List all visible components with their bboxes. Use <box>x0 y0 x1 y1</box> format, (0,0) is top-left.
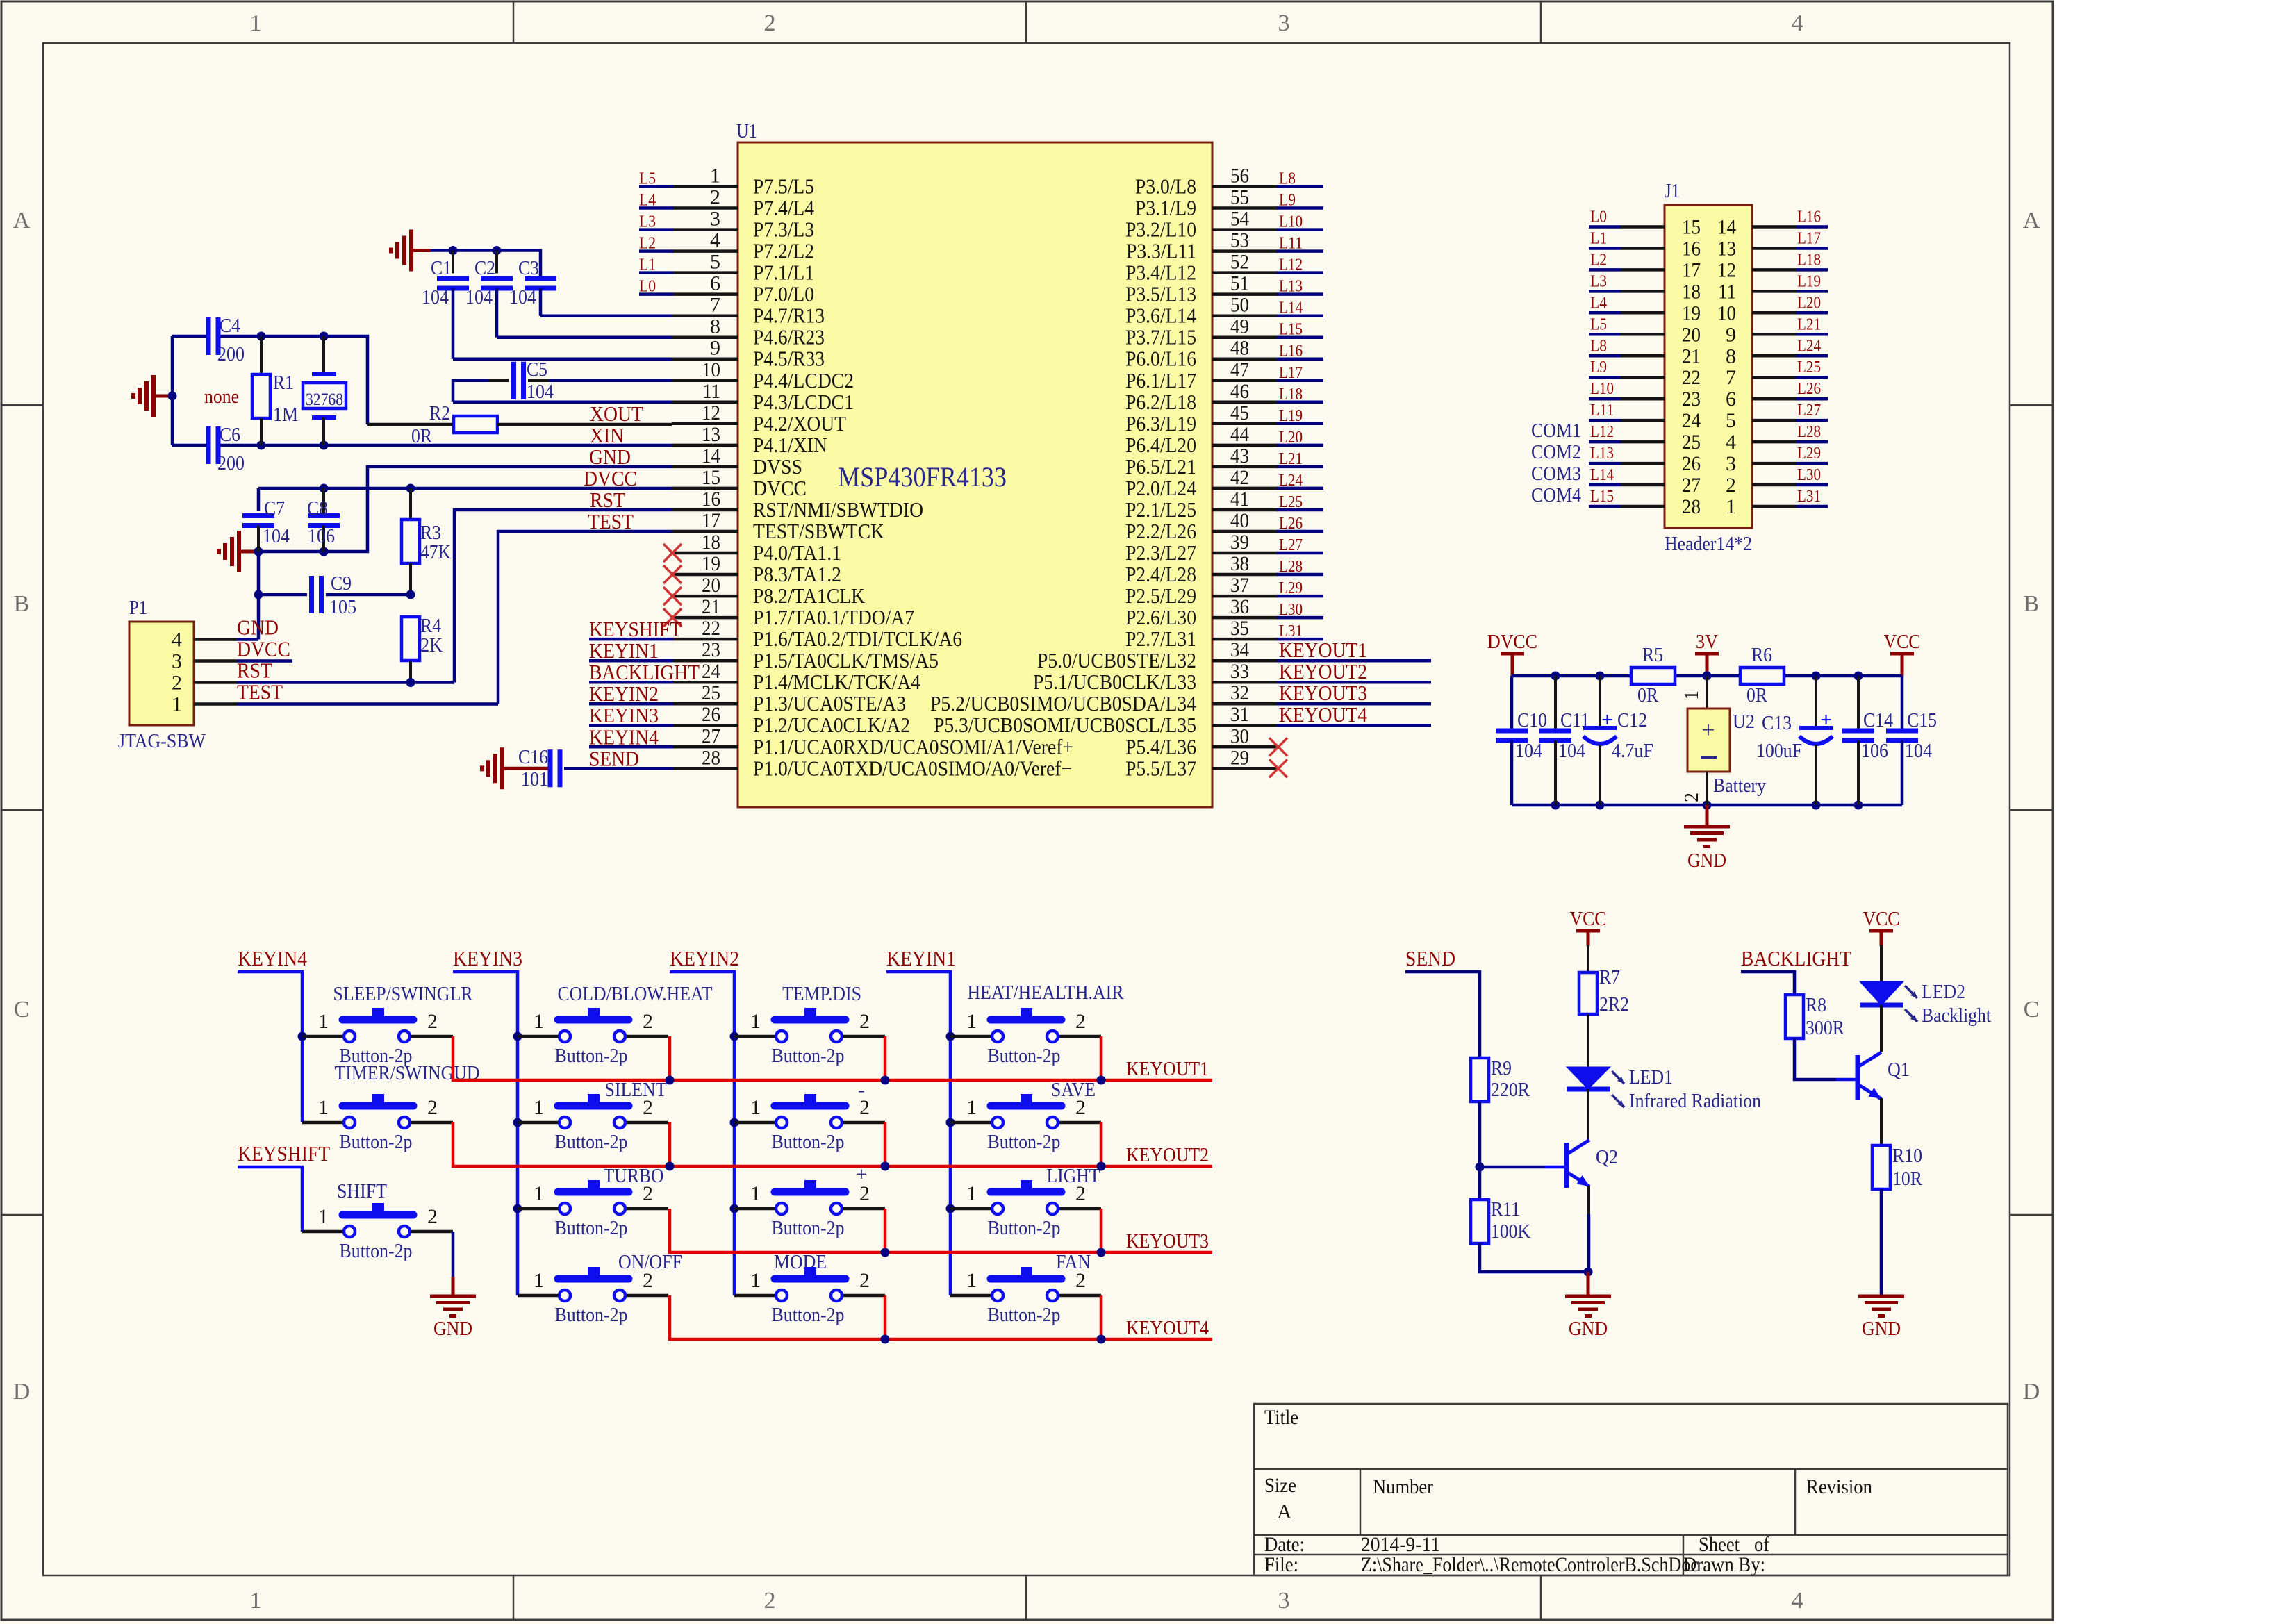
U1 pin 5 P7.1/L1 <box>672 251 814 285</box>
svg-text:C1: C1 <box>431 257 452 279</box>
wire net L12 from U1 pin 52 <box>1277 271 1323 274</box>
value none <box>204 386 239 408</box>
svg-text:L31: L31 <box>1797 488 1821 506</box>
capacitor C9 <box>258 572 411 618</box>
net label L28 <box>1279 558 1303 576</box>
svg-text:104: 104 <box>263 525 290 547</box>
junction KEYOUT3 col4 <box>1097 1209 1106 1257</box>
svg-text:300R: 300R <box>1806 1017 1845 1039</box>
svg-text:L29: L29 <box>1797 445 1821 463</box>
wire net L19 from U1 pin 45 <box>1277 422 1323 426</box>
svg-text:+: + <box>1601 709 1613 731</box>
svg-text:C8: C8 <box>307 497 328 520</box>
no-connect X on U1 pin 30 <box>1269 738 1287 756</box>
svg-text:COM2: COM2 <box>1531 441 1581 463</box>
svg-text:1: 1 <box>1681 690 1703 700</box>
U1 pin 18 P4.0/TA1.1 <box>672 531 841 565</box>
wire net L14 from U1 pin 50 <box>1277 314 1323 317</box>
wire DVCC rail <box>258 488 672 511</box>
svg-text:2: 2 <box>859 1269 870 1292</box>
ground symbol battery <box>1684 805 1730 872</box>
svg-text:14: 14 <box>1717 216 1736 239</box>
U1 pin 30 P5.4/L36 <box>1125 724 1278 759</box>
svg-text:L10: L10 <box>1279 213 1303 231</box>
U1 pin 37 P2.5/L29 <box>1125 574 1278 608</box>
svg-text:Title: Title <box>1264 1406 1298 1429</box>
svg-text:P3.2/L10: P3.2/L10 <box>1125 217 1196 242</box>
wire net L20 from U1 pin 44 <box>1277 444 1323 447</box>
capacitor C2 <box>465 251 672 338</box>
svg-text:L13: L13 <box>1279 278 1303 296</box>
junction C1 top <box>449 246 458 255</box>
wire KEYIN4 column <box>238 972 307 1122</box>
transistor Q2 <box>1567 1140 1618 1188</box>
svg-text:R9: R9 <box>1491 1057 1512 1079</box>
svg-text:Number: Number <box>1373 1475 1433 1498</box>
svg-text:Backlight: Backlight <box>1922 1004 1991 1027</box>
U1 pin 27 P1.1/UCA0RXD/UCA0SOMI/A1/Veref+ <box>672 724 1073 759</box>
svg-text:25: 25 <box>1682 431 1701 454</box>
svg-text:7: 7 <box>710 294 720 317</box>
net label RST pin16 <box>590 488 625 512</box>
svg-text:KEYIN1: KEYIN1 <box>886 946 956 970</box>
U1 pin 6 P7.0/L0 <box>672 272 814 306</box>
junction KEYOUT4 col3 <box>881 1295 890 1344</box>
svg-text:44: 44 <box>1230 423 1249 446</box>
net label SEND <box>1405 946 1455 970</box>
svg-text:L11: L11 <box>1279 235 1303 253</box>
ic U1 MSP430FR4133 body <box>738 142 1212 807</box>
svg-text:A: A <box>1277 1500 1292 1523</box>
J1 pin 28 net L15 <box>1589 488 1701 518</box>
svg-text:R6: R6 <box>1751 644 1772 666</box>
svg-text:A: A <box>2023 208 2040 233</box>
button S15 FAN <box>950 1251 1101 1326</box>
svg-text:L3: L3 <box>639 213 656 231</box>
U1 pin 43 P6.5/L21 <box>1125 445 1278 479</box>
svg-text:1: 1 <box>534 1269 544 1292</box>
wire KEYOUT4 <box>670 1295 1212 1339</box>
svg-text:49: 49 <box>1230 315 1249 338</box>
svg-text:31: 31 <box>1230 703 1249 726</box>
svg-text:KEYOUT1: KEYOUT1 <box>1279 638 1367 662</box>
svg-text:47: 47 <box>1230 358 1249 381</box>
net label L5 <box>639 170 656 188</box>
svg-text:GND: GND <box>433 1318 472 1340</box>
button S6 SILENT <box>518 1079 668 1153</box>
svg-text:Button-2p: Button-2p <box>772 1131 845 1153</box>
U1 pin 48 P6.0/L16 <box>1125 337 1278 371</box>
svg-text:1: 1 <box>750 1269 761 1292</box>
svg-text:0R: 0R <box>411 425 433 447</box>
wire net KEYIN1 to U1 pin 23 <box>589 659 673 663</box>
svg-text:P1.1/UCA0RXD/UCA0SOMI/A1/Veref: P1.1/UCA0RXD/UCA0SOMI/A1/Veref+ <box>753 734 1073 759</box>
svg-text:C3: C3 <box>518 257 539 279</box>
svg-text:17: 17 <box>1682 258 1701 281</box>
net label L9 <box>1279 192 1296 210</box>
wire net L10 from U1 pin 54 <box>1277 228 1323 231</box>
junction bottom rail <box>1596 801 1605 810</box>
svg-text:2: 2 <box>1681 793 1703 802</box>
svg-text:L21: L21 <box>1279 450 1303 468</box>
svg-text:R2: R2 <box>429 402 450 424</box>
svg-text:L12: L12 <box>1279 256 1303 274</box>
button S11 plus <box>734 1163 885 1239</box>
svg-text:P1.7/TA0.1/TDO/A7: P1.7/TA0.1/TDO/A7 <box>753 605 914 629</box>
net label KEYIN1 <box>886 946 956 970</box>
svg-text:4: 4 <box>710 229 720 252</box>
U1 pin 56 P3.0/L8 <box>1135 165 1278 199</box>
svg-text:P6.2/L18: P6.2/L18 <box>1125 390 1196 414</box>
capacitor C15 <box>1886 676 1937 805</box>
svg-text:2: 2 <box>1075 1269 1086 1292</box>
J1 pin 24 net L11 <box>1589 401 1701 432</box>
svg-text:L1: L1 <box>1590 230 1607 248</box>
svg-text:1: 1 <box>318 1096 329 1119</box>
svg-text:P4.0/TA1.1: P4.0/TA1.1 <box>753 540 841 565</box>
J1 pin 22 net L9 <box>1589 358 1701 389</box>
capacitor C4 <box>208 315 245 365</box>
net label XIN <box>590 423 624 447</box>
svg-text:TEMP.DIS: TEMP.DIS <box>782 983 861 1005</box>
svg-text:P2.7/L31: P2.7/L31 <box>1125 627 1196 651</box>
svg-text:L20: L20 <box>1279 429 1303 447</box>
svg-text:P2.3/L27: P2.3/L27 <box>1125 540 1196 565</box>
svg-text:Button-2p: Button-2p <box>340 1240 413 1262</box>
J1 pin 8 net L24 <box>1726 337 1828 367</box>
svg-text:DVCC: DVCC <box>584 466 637 490</box>
svg-text:Button-2p: Button-2p <box>988 1131 1061 1153</box>
wire LED2 to Q1 collector <box>1880 1005 1883 1052</box>
svg-text:P6.1/L17: P6.1/L17 <box>1125 368 1196 392</box>
svg-text:P4.3/LCDC1: P4.3/LCDC1 <box>753 390 854 414</box>
svg-text:P5.2/UCB0SIMO/UCB0SDA/L34: P5.2/UCB0SIMO/UCB0SDA/L34 <box>930 691 1196 715</box>
label COM2 <box>1531 441 1581 463</box>
svg-text:4.7uF: 4.7uF <box>1612 740 1653 762</box>
connector P1 designator <box>129 597 147 619</box>
svg-text:KEYIN4: KEYIN4 <box>589 724 659 749</box>
U1 pin 16 RST/NMI/SBWTDIO <box>672 488 923 522</box>
wire net L26 from U1 pin 40 <box>1277 530 1323 533</box>
svg-text:L0: L0 <box>639 278 656 296</box>
svg-text:13: 13 <box>702 423 720 446</box>
net label L3 <box>639 213 656 231</box>
capacitor C10 <box>1496 676 1547 805</box>
svg-text:28: 28 <box>1682 495 1701 518</box>
U1 pin 8 P4.6/R23 <box>672 315 825 349</box>
svg-text:3V: 3V <box>1696 631 1718 653</box>
svg-text:P3.5/L13: P3.5/L13 <box>1125 282 1196 306</box>
svg-text:40: 40 <box>1230 509 1249 532</box>
svg-text:P3.1/L9: P3.1/L9 <box>1135 196 1196 220</box>
svg-text:2K: 2K <box>420 634 443 656</box>
svg-text:16: 16 <box>702 488 720 511</box>
title block labels <box>1264 1406 1872 1576</box>
wire R9 to R11 <box>1478 1102 1482 1200</box>
wire net L5 to U1 pin 1 <box>639 185 673 188</box>
svg-text:L0: L0 <box>1590 208 1607 226</box>
svg-text:25: 25 <box>702 681 720 704</box>
junction top rail <box>1854 672 1863 681</box>
svg-text:L19: L19 <box>1279 407 1303 425</box>
U1 pin 34 P5.0/UCB0STE/L32 <box>1037 638 1278 672</box>
junction C4-R1 <box>257 332 266 341</box>
resistor R5 <box>1631 644 1675 706</box>
svg-text:L4: L4 <box>639 192 656 210</box>
no-connect X on U1 pin 29 <box>1269 759 1287 777</box>
svg-text:R11: R11 <box>1491 1198 1520 1220</box>
U1 pin 39 P2.3/L27 <box>1125 531 1278 565</box>
svg-text:22: 22 <box>702 617 720 640</box>
J1 pin 7 net L25 <box>1726 358 1828 389</box>
resistor R7 <box>1579 966 1629 1016</box>
net label L15 <box>1279 321 1303 339</box>
wire net L3 to U1 pin 3 <box>639 228 673 231</box>
svg-text:L3: L3 <box>1590 272 1607 290</box>
led LED2 <box>1860 981 1991 1027</box>
net label L1 <box>639 256 656 274</box>
net label KEYIN1 <box>589 638 659 663</box>
junction gnd vert <box>254 547 263 556</box>
wire KEYIN3 column <box>453 972 522 1295</box>
U1 pin 1 P7.5/L5 <box>672 165 814 199</box>
net label L27 <box>1279 536 1303 554</box>
svg-text:C6: C6 <box>220 424 240 446</box>
U1 pin 15 DVCC <box>672 466 807 500</box>
junction Q2 emitter gnd <box>1584 1268 1593 1277</box>
button S12 LIGHT <box>950 1165 1101 1239</box>
svg-text:B: B <box>2024 591 2040 617</box>
J1 pin 4 net L28 <box>1726 423 1828 454</box>
svg-text:Button-2p: Button-2p <box>555 1045 628 1067</box>
svg-text:2: 2 <box>764 1588 776 1614</box>
svg-text:DVCC: DVCC <box>1487 631 1537 653</box>
svg-text:L25: L25 <box>1797 358 1821 376</box>
net label L24 <box>1279 472 1303 490</box>
resistor R10 <box>1872 1145 1923 1190</box>
wire KEYIN2 column <box>670 972 739 1295</box>
svg-text:GND: GND <box>1687 850 1726 872</box>
junction crystal top <box>320 332 329 341</box>
P1 pin 1 TEST <box>172 680 283 716</box>
svg-text:J1: J1 <box>1665 181 1680 202</box>
svg-text:KEYOUT4: KEYOUT4 <box>1279 702 1367 727</box>
svg-text:TURBO: TURBO <box>604 1165 664 1187</box>
svg-text:P3.4/L12: P3.4/L12 <box>1125 260 1196 285</box>
net label KEYOUT4 <box>1279 702 1367 727</box>
svg-text:26: 26 <box>1682 452 1701 475</box>
U1 pin 19 P8.3/TA1.2 <box>672 552 841 586</box>
svg-text:34: 34 <box>1230 638 1249 661</box>
junction C8 bottom <box>320 547 329 556</box>
J1 pin 14 net L16 <box>1717 208 1828 239</box>
svg-text:11: 11 <box>1718 280 1736 303</box>
svg-text:R7: R7 <box>1599 966 1620 988</box>
svg-text:KEYSHIFT: KEYSHIFT <box>589 617 682 641</box>
svg-text:P7.4/L4: P7.4/L4 <box>753 196 814 220</box>
capacitor C1 <box>422 251 672 359</box>
button S2 COLD/BLOW.HEAT <box>518 983 713 1067</box>
net label L14 <box>1279 299 1303 317</box>
svg-text:1M: 1M <box>273 404 298 426</box>
svg-text:L28: L28 <box>1279 558 1303 576</box>
svg-text:KEYIN4: KEYIN4 <box>238 946 307 970</box>
svg-text:A: A <box>13 208 31 233</box>
wire net L0 to U1 pin 6 <box>639 292 673 296</box>
button S3 TEMP.DIS <box>734 983 885 1067</box>
wire R10 to gnd <box>1880 1189 1883 1296</box>
svg-text:SEND: SEND <box>1405 946 1455 970</box>
junction R3 R4 C9 <box>406 590 415 599</box>
net label KEYOUT2 <box>1279 659 1367 683</box>
wire TEST net <box>237 531 672 704</box>
svg-text:HEAT/HEALTH.AIR: HEAT/HEALTH.AIR <box>968 981 1125 1004</box>
wire P1 gnd <box>237 638 258 641</box>
svg-text:106: 106 <box>1861 740 1888 762</box>
junction C6-R1 <box>257 441 266 450</box>
svg-text:Q1: Q1 <box>1888 1059 1910 1081</box>
wire net L28 from U1 pin 38 <box>1277 573 1323 577</box>
svg-text:104: 104 <box>422 286 449 308</box>
svg-text:L12: L12 <box>1590 423 1614 441</box>
svg-text:P3.3/L11: P3.3/L11 <box>1126 239 1196 263</box>
U1 pin 14 DVSS <box>672 445 802 479</box>
svg-text:11: 11 <box>702 380 720 403</box>
svg-text:2: 2 <box>643 1010 653 1033</box>
wire base Q2 <box>1480 1166 1564 1169</box>
junction top rail <box>1596 672 1605 681</box>
net label KEYOUT2 <box>1126 1144 1209 1166</box>
svg-text:COM1: COM1 <box>1531 420 1581 442</box>
svg-text:L15: L15 <box>1590 488 1614 506</box>
svg-text:1: 1 <box>1726 495 1736 518</box>
net label L13 <box>1279 278 1303 296</box>
junction crystal bottom <box>320 441 329 450</box>
svg-text:52: 52 <box>1230 251 1249 274</box>
svg-text:16: 16 <box>1682 238 1701 260</box>
zone dividers right band <box>2010 405 2053 1215</box>
svg-text:35: 35 <box>1230 617 1249 640</box>
wire XIN bottom rail <box>172 444 672 447</box>
net label L10 <box>1279 213 1303 231</box>
svg-text:L18: L18 <box>1797 251 1821 269</box>
svg-text:U2: U2 <box>1733 711 1755 733</box>
ic U1 part name MSP430FR4133 <box>838 461 1007 492</box>
svg-text:55: 55 <box>1230 186 1249 209</box>
svg-text:L14: L14 <box>1279 299 1303 317</box>
svg-text:KEYIN2: KEYIN2 <box>589 681 659 706</box>
svg-text:3: 3 <box>1726 452 1736 475</box>
svg-text:32: 32 <box>1230 681 1249 704</box>
svg-text:2: 2 <box>172 672 182 695</box>
J1 pin 23 net L10 <box>1589 380 1701 411</box>
svg-text:L17: L17 <box>1797 230 1821 248</box>
net label BACKLIGHT <box>589 660 700 684</box>
transistor Q1 <box>1858 1052 1910 1100</box>
svg-text:KEYSHIFT: KEYSHIFT <box>238 1141 330 1166</box>
U1 pin 9 P4.5/R33 <box>672 337 825 371</box>
U1 pin 41 P2.1/L25 <box>1125 488 1278 522</box>
ground symbol C1-C3 <box>391 230 431 272</box>
wire net L16 from U1 pin 48 <box>1277 357 1323 361</box>
resistor R3 <box>402 488 451 595</box>
svg-text:P5.5/L37: P5.5/L37 <box>1125 756 1196 780</box>
J1 pin 5 net L27 <box>1726 401 1828 432</box>
wire gnd to C9 vertical <box>257 552 261 640</box>
U1 pin 54 P3.2/L10 <box>1125 208 1278 242</box>
svg-text:1: 1 <box>966 1096 977 1119</box>
U1 pin 23 P1.5/TA0CLK/TMS/A5 <box>672 638 939 672</box>
svg-text:P2.2/L26: P2.2/L26 <box>1125 519 1196 543</box>
J1 pin 20 net L5 <box>1589 315 1701 346</box>
J1 pin 18 net L3 <box>1589 272 1701 303</box>
wire net L8 from U1 pin 56 <box>1277 185 1323 188</box>
svg-text:L1: L1 <box>639 256 656 274</box>
junction R3 top <box>406 484 415 493</box>
svg-text:15: 15 <box>702 466 720 489</box>
svg-text:L5: L5 <box>639 170 656 188</box>
U1 pin 2 P7.4/L4 <box>672 186 814 220</box>
svg-text:21: 21 <box>1682 345 1701 367</box>
svg-text:104: 104 <box>1515 740 1542 762</box>
svg-text:14: 14 <box>702 445 720 467</box>
svg-text:2: 2 <box>427 1096 438 1119</box>
net label L19 <box>1279 407 1303 425</box>
junction top rail <box>1812 672 1821 681</box>
wire net BACKLIGHT to U1 pin 24 <box>589 681 673 684</box>
svg-text:12: 12 <box>702 401 720 424</box>
svg-text:P2.0/L24: P2.0/L24 <box>1125 476 1196 500</box>
junction KEYOUT3 col3 <box>881 1209 890 1257</box>
svg-text:27: 27 <box>702 724 720 747</box>
net label DVCC pin15 <box>584 466 637 490</box>
svg-text:1: 1 <box>534 1010 544 1033</box>
ground symbol C7 C8 <box>219 531 258 572</box>
svg-text:Q2: Q2 <box>1596 1146 1618 1168</box>
wire net L30 from U1 pin 36 <box>1277 616 1323 620</box>
net label L16 <box>1279 342 1303 361</box>
svg-text:P8.3/TA1.2: P8.3/TA1.2 <box>753 562 841 586</box>
wire net L2 to U1 pin 4 <box>639 249 673 253</box>
svg-text:L26: L26 <box>1279 515 1303 533</box>
junction KEYOUT2 col4 <box>1097 1122 1106 1171</box>
P1 pin 3 DVCC <box>172 637 290 673</box>
svg-text:KEYIN2: KEYIN2 <box>670 946 739 970</box>
svg-text:Button-2p: Button-2p <box>555 1217 628 1239</box>
svg-text:46: 46 <box>1230 380 1249 403</box>
resistor R9 <box>1471 1057 1530 1102</box>
svg-text:L2: L2 <box>639 235 656 253</box>
wire XOUT top rail <box>172 336 367 424</box>
svg-text:R1: R1 <box>273 372 294 394</box>
capacitor C13 polarized <box>1756 676 1833 805</box>
J1 pin 16 net L1 <box>1589 230 1701 260</box>
P1 pin 4 GND <box>172 615 279 652</box>
J1 pin 27 net L14 <box>1589 466 1701 497</box>
junction C8 top <box>320 484 329 493</box>
svg-text:KEYIN1: KEYIN1 <box>589 638 659 663</box>
resistor R8 <box>1785 994 1845 1039</box>
svg-text:L27: L27 <box>1797 401 1821 420</box>
label COM3 <box>1531 463 1581 485</box>
svg-text:P4.7/R13: P4.7/R13 <box>753 304 825 328</box>
button S14 MODE <box>734 1251 885 1326</box>
ground symbol crystal area <box>133 375 177 417</box>
svg-text:2: 2 <box>1075 1182 1086 1205</box>
svg-text:20: 20 <box>1682 323 1701 346</box>
svg-text:C13: C13 <box>1762 712 1792 734</box>
svg-text:KEYIN3: KEYIN3 <box>453 946 522 970</box>
